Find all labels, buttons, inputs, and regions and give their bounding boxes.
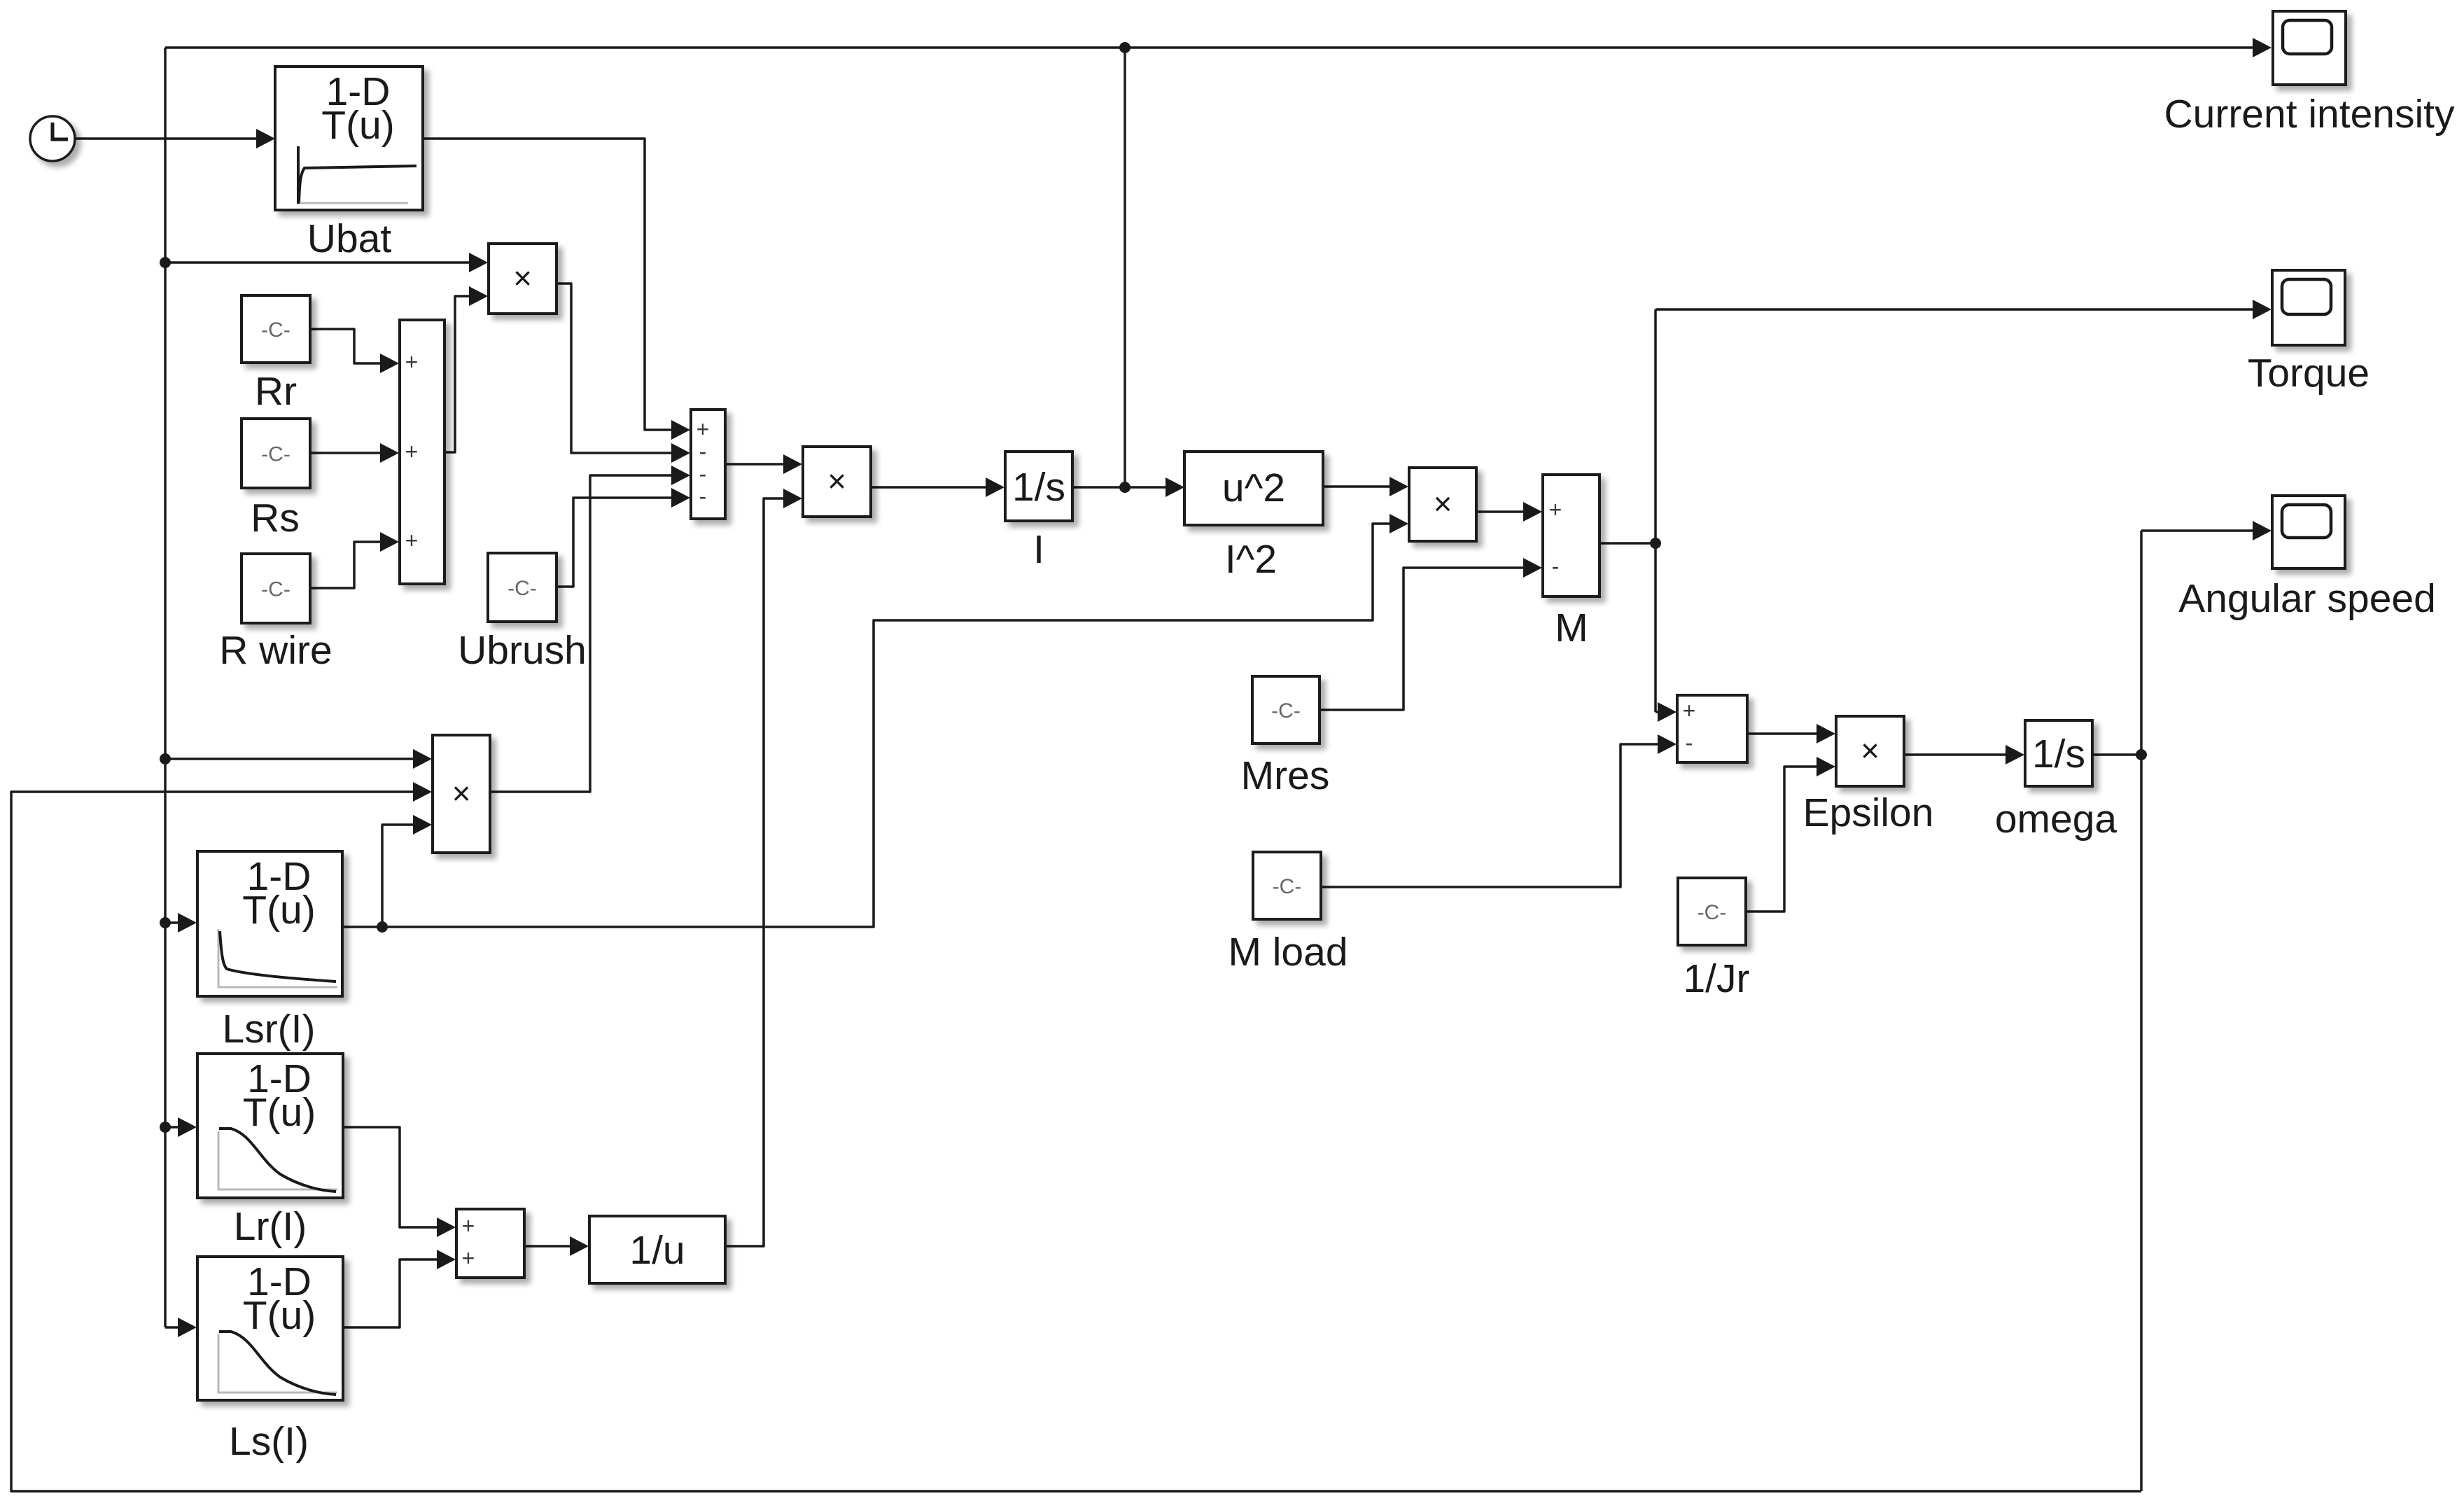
svg-text:Current intensity: Current intensity — [2164, 92, 2455, 137]
svg-text:-C-: -C- — [261, 578, 290, 601]
svg-text:1/s: 1/s — [1012, 465, 1065, 510]
svg-text:u^2: u^2 — [1222, 466, 1285, 510]
svg-text:-: - — [699, 439, 707, 464]
svg-text:+: + — [405, 349, 419, 375]
svg-text:×: × — [1861, 732, 1879, 769]
svg-text:+: + — [462, 1213, 475, 1238]
svg-text:Lr(I): Lr(I) — [234, 1204, 307, 1249]
svg-text:-C-: -C- — [261, 319, 290, 342]
svg-text:Epsilon: Epsilon — [1803, 790, 1934, 835]
svg-text:-: - — [1552, 554, 1560, 579]
svg-text:-C-: -C- — [261, 443, 290, 466]
svg-text:1/Jr: 1/Jr — [1683, 956, 1749, 1001]
svg-text:Torque: Torque — [2248, 351, 2369, 396]
svg-text:-: - — [699, 461, 707, 487]
svg-text:Mres: Mres — [1241, 753, 1330, 798]
svg-text:T(u): T(u) — [242, 888, 315, 933]
svg-text:omega: omega — [1995, 797, 2117, 842]
svg-text:-C-: -C- — [507, 577, 537, 600]
svg-text:I^2: I^2 — [1225, 537, 1277, 582]
svg-text:1/s: 1/s — [2032, 732, 2085, 776]
svg-text:+: + — [696, 417, 710, 442]
svg-text:+: + — [1683, 698, 1696, 723]
svg-text:×: × — [513, 260, 532, 296]
svg-text:M load: M load — [1228, 930, 1347, 975]
svg-text:Rr: Rr — [255, 369, 297, 414]
svg-text:-C-: -C- — [1697, 901, 1727, 924]
svg-text:-C-: -C- — [1273, 875, 1302, 898]
svg-text:1/u: 1/u — [629, 1228, 685, 1273]
svg-text:Ls(I): Ls(I) — [229, 1419, 309, 1464]
svg-text:×: × — [827, 463, 846, 499]
svg-text:Ubat: Ubat — [307, 216, 392, 261]
svg-text:-C-: -C- — [1271, 699, 1301, 722]
svg-text:+: + — [1549, 497, 1562, 522]
svg-text:+: + — [405, 439, 419, 464]
svg-text:T(u): T(u) — [243, 1090, 316, 1135]
svg-text:I: I — [1033, 527, 1044, 572]
svg-text:Lsr(I): Lsr(I) — [223, 1007, 316, 1052]
svg-text:+: + — [462, 1245, 475, 1271]
svg-text:T(u): T(u) — [243, 1293, 316, 1338]
svg-text:Rs: Rs — [251, 496, 300, 540]
svg-text:-: - — [1686, 730, 1693, 755]
svg-text:+: + — [405, 528, 419, 553]
svg-text:×: × — [452, 775, 471, 811]
svg-text:Ubrush: Ubrush — [458, 628, 587, 673]
svg-text:R wire: R wire — [219, 628, 332, 673]
svg-text:T(u): T(u) — [321, 103, 394, 148]
svg-text:M: M — [1555, 606, 1588, 650]
svg-text:-: - — [699, 484, 707, 509]
svg-text:Angular speed: Angular speed — [2178, 576, 2436, 621]
svg-text:×: × — [1434, 486, 1452, 522]
